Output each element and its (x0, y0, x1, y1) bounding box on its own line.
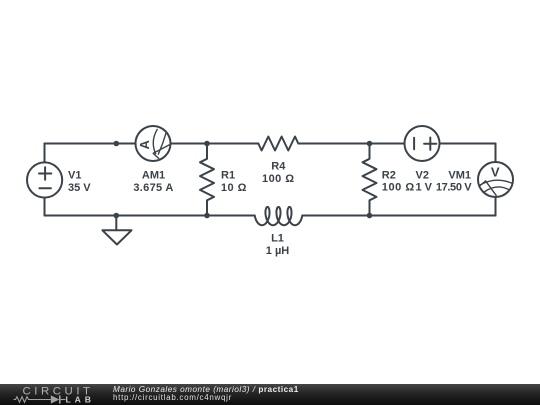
voltage source V1 (27, 162, 62, 197)
svg-text:R1: R1 (221, 169, 235, 181)
node dot top A (114, 141, 120, 147)
footer bar (0, 384, 540, 405)
wire V1 top stub (44, 144, 46, 164)
svg-text:L1: L1 (271, 232, 284, 244)
voltage source V2 (405, 126, 440, 161)
node dot bottom B (204, 213, 210, 219)
inductor L1 (255, 207, 303, 225)
wire bottom rail left (V1 to L1) (45, 215, 255, 217)
svg-text:AM1: AM1 (142, 169, 165, 181)
node dot ground (114, 213, 120, 219)
wire right branch top (corner to VM1) (495, 144, 497, 164)
node dot bottom C (367, 213, 373, 219)
svg-text:10 Ω: 10 Ω (221, 182, 247, 194)
CircuitLab logo (0, 384, 110, 405)
wire top rail right (R4 to corner) (298, 143, 495, 145)
wire V1 bottom stub (44, 198, 46, 216)
resistor R4 (258, 137, 298, 151)
svg-text:1 V: 1 V (416, 182, 433, 194)
wire bottom rail right (L1 to corner) (302, 215, 495, 217)
svg-text:V2: V2 (416, 169, 429, 181)
svg-text:17.50 V: 17.50 V (436, 182, 472, 194)
wire top rail left (V1 to R4) (45, 143, 259, 145)
svg-text:V: V (491, 165, 500, 180)
svg-text:VM1: VM1 (448, 169, 471, 181)
ammeter AM1 (136, 126, 171, 161)
svg-text:A: A (137, 139, 152, 149)
ground (102, 216, 131, 245)
svg-text:R2: R2 (382, 169, 396, 181)
footer url text (113, 393, 232, 402)
voltmeter VM1 (478, 162, 513, 197)
svg-text:100 Ω: 100 Ω (262, 173, 294, 185)
svg-text:1 µH: 1 µH (266, 245, 290, 257)
svg-text:100 Ω: 100 Ω (382, 182, 415, 194)
wire right branch bottom (VM1 to corner) (495, 197, 497, 216)
svg-text:R4: R4 (271, 160, 286, 172)
node dot top B (204, 141, 210, 147)
svg-text:3.675 A: 3.675 A (133, 182, 173, 194)
resistor R1 (200, 144, 214, 216)
node dot top C (367, 141, 373, 147)
footer title text (113, 385, 299, 394)
svg-text:35 V: 35 V (68, 182, 91, 194)
svg-text:V1: V1 (68, 169, 81, 181)
svg-text:LAB: LAB (66, 395, 95, 405)
resistor R2 (363, 144, 377, 216)
